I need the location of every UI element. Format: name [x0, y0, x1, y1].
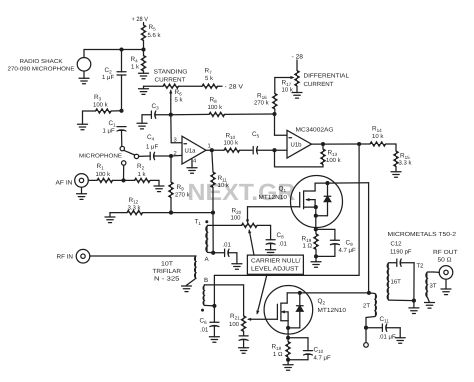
Q1 drain stub [304, 190, 316, 192]
resistor R18 [287, 338, 289, 342]
svg-text:MT12N10: MT12N10 [259, 194, 288, 201]
node R11 bus [211, 211, 215, 215]
svg-text:270 k: 270 k [254, 100, 270, 107]
wire bus drop to node A [212, 213, 214, 253]
svg-text:10T: 10T [161, 261, 173, 268]
wire [143, 23, 145, 26]
svg-text:1: 1 [208, 144, 211, 150]
resistor R2 [124, 179, 135, 181]
ground left of R12 [109, 213, 111, 217]
resistor R15 [395, 144, 397, 151]
ground under C8 [266, 249, 276, 251]
svg-text:1 μF: 1 μF [102, 74, 114, 81]
capacitor C9 [316, 228, 335, 230]
Q1 drain wire [328, 182, 369, 184]
switch AF contact [122, 161, 126, 165]
capacitor C2 [121, 50, 123, 72]
ground under microphone [83, 71, 85, 78]
svg-text:TRIFILAR: TRIFILAR [153, 268, 182, 275]
svg-text:3: 3 [174, 137, 177, 144]
resistor R14 [359, 143, 370, 145]
svg-text:100 k: 100 k [208, 104, 224, 111]
capacitor C1 [117, 126, 126, 128]
resistor R1 [88, 179, 97, 181]
svg-text:RADIO SHACK: RADIO SHACK [20, 59, 63, 65]
svg-text:100: 100 [231, 215, 242, 222]
node R19 bottom [314, 254, 318, 258]
potentiometer R20 [242, 223, 258, 227]
resistor R16 [274, 109, 276, 114]
svg-text:3.3 k: 3.3 k [128, 205, 142, 212]
svg-text:U1a: U1a [185, 148, 197, 155]
node U1a out [210, 148, 214, 152]
wire B bottom riser [213, 275, 215, 306]
resistor R12 [110, 212, 127, 214]
svg-text:.01: .01 [200, 327, 209, 334]
resistor R9 [170, 156, 172, 182]
Q2 gate bar [276, 304, 278, 319]
svg-text:1 Ω: 1 Ω [273, 351, 283, 358]
ground under AF IN [81, 187, 83, 194]
capacitor .01 at node A [213, 252, 224, 254]
ground pin4 U1a [191, 160, 193, 168]
resistor R8 [171, 113, 209, 115]
svg-text:100 k: 100 k [224, 140, 240, 147]
svg-text:CURRENT: CURRENT [304, 81, 334, 88]
svg-text:1 μF: 1 μF [103, 128, 115, 135]
wire U1a output [206, 149, 212, 151]
op-amp U1a [182, 136, 206, 164]
node A [211, 251, 215, 255]
ground after .01 cap [232, 263, 242, 265]
resistor R11 [212, 150, 213, 172]
node Q1 source [314, 227, 318, 231]
svg-text:10 k: 10 k [218, 182, 230, 189]
svg-text:2: 2 [174, 150, 177, 157]
svg-text:270-090 MICROPHONE: 270-090 MICROPHONE [8, 67, 75, 73]
resistor R13 [322, 144, 324, 149]
svg-text:.01: .01 [223, 242, 232, 249]
ground after R2 [158, 180, 160, 186]
wire winding A top to R20 [208, 224, 242, 226]
transformer T2 secondary 3T [426, 272, 428, 298]
ground under R18 [283, 364, 293, 366]
svg-text:MC34002AG: MC34002AG [296, 127, 334, 134]
svg-text:100: 100 [229, 321, 240, 328]
resistor R4 [143, 50, 145, 56]
node 2T top [367, 291, 371, 295]
svg-text:N - 325: N - 325 [154, 276, 180, 283]
node R9 bus [169, 211, 173, 215]
svg-text:- 28 V: - 28 V [225, 83, 244, 90]
terminal open circle [365, 328, 367, 343]
wire winding B top to R21 [204, 284, 243, 286]
svg-text:STANDING: STANDING [154, 69, 188, 76]
annotation box carrier null/level adjust [247, 255, 303, 274]
switch pole [134, 154, 138, 158]
Q1 source stub [304, 206, 316, 208]
node U1b out bus [357, 142, 361, 146]
potentiometer R21 [241, 316, 245, 332]
capacitor C11 [366, 327, 382, 329]
svg-text:MICROMETALS T50-2: MICROMETALS T50-2 [388, 231, 457, 238]
svg-text:3T: 3T [430, 283, 437, 290]
svg-text:100 k: 100 k [96, 171, 112, 178]
ground under C6 [209, 336, 219, 338]
svg-text:DIFFERENTIAL: DIFFERENTIAL [304, 73, 350, 80]
svg-text:T2: T2 [417, 263, 425, 270]
node C3/R8/pin3 [169, 113, 173, 117]
Q2 channel bar [280, 303, 282, 321]
potentiometer R17 [295, 71, 299, 87]
Q2 source wire [287, 328, 289, 338]
svg-text:100 k: 100 k [326, 157, 342, 164]
wire R20 wiper to Q1 gate [248, 206, 300, 208]
R21 wiper arrow [249, 318, 278, 320]
ground T1 primary [186, 284, 188, 287]
transistor Q1 [291, 176, 343, 228]
transformer T1 primary 10T [195, 256, 196, 278]
capacitor C6 [213, 306, 215, 322]
ground under R4 [139, 72, 149, 74]
Q2 drain wire [287, 292, 369, 294]
svg-text:MICROPHONE: MICROPHONE [79, 154, 122, 160]
wire Q1 drain drop [368, 183, 370, 292]
Q2 source stub [281, 320, 288, 322]
ground under R15 [391, 171, 401, 173]
resistor R7 [202, 84, 218, 88]
svg-text:1190 pF: 1190 pF [390, 249, 412, 256]
potentiometer R6 [163, 84, 179, 88]
svg-text:10 k: 10 k [372, 133, 384, 140]
feedback wire U1b [275, 166, 324, 168]
svg-text:5 k: 5 k [205, 75, 214, 82]
svg-text:CARRIER NULL/: CARRIER NULL/ [251, 258, 301, 265]
svg-text:B: B [204, 277, 208, 284]
resistor R10 [212, 149, 224, 151]
wire pin3 drop [170, 115, 172, 143]
svg-text:AF IN: AF IN [56, 180, 73, 187]
node AF junction [121, 178, 125, 182]
node B [212, 304, 216, 308]
svg-text:LEVEL ADJUST: LEVEL ADJUST [251, 266, 299, 273]
switch mic contact [120, 146, 124, 150]
Q2 drain stub [281, 302, 287, 304]
wire U1b output [312, 143, 324, 145]
svg-text:C12: C12 [391, 241, 403, 248]
Q2 body diode [299, 293, 301, 306]
node R18 bottom [286, 358, 290, 362]
capacitor C5 [252, 147, 254, 154]
Q1 channel bar [303, 191, 305, 209]
ground under R21 cap [239, 347, 249, 349]
svg-text:16T: 16T [391, 279, 402, 286]
Q1 body arrow [307, 199, 316, 201]
potentiometer R17 wiper [275, 77, 293, 79]
svg-text:3.3 k: 3.3 k [399, 160, 413, 167]
winding 2T [369, 292, 375, 295]
resistor R5 [141, 25, 145, 41]
Q1 gate bar [299, 193, 301, 208]
ground under R19 [311, 261, 321, 263]
wire R6 line [144, 85, 164, 87]
capacitor C4 [139, 155, 151, 157]
node T2 bottom [412, 299, 416, 303]
svg-text:U1b: U1b [291, 142, 303, 149]
ground under RF OUT [445, 279, 447, 289]
wire top node [84, 49, 144, 51]
Q1 source wire [315, 207, 317, 229]
ground T2 secondary [425, 302, 435, 304]
Q2 body arrow [282, 311, 288, 313]
svg-text:CURRENT: CURRENT [155, 77, 186, 84]
svg-text:5 k: 5 k [175, 97, 184, 104]
capacitor C8 [270, 225, 272, 239]
microphone radio shack [83, 50, 85, 58]
svg-text:100 k: 100 k [93, 102, 109, 109]
svg-text:MT12N10: MT12N10 [318, 307, 347, 314]
svg-text:1 k: 1 k [138, 171, 147, 178]
op-amp U1b [274, 114, 276, 135]
node U1b in [272, 148, 276, 152]
svg-text:4.7 μF: 4.7 μF [314, 355, 331, 362]
switch lever [124, 150, 135, 155]
node R8/R16 [272, 112, 276, 116]
svg-text:270 k: 270 k [175, 192, 191, 199]
svg-text:.01: .01 [279, 241, 288, 248]
Q1 body diode [327, 183, 329, 196]
ground left of R6 [143, 86, 145, 89]
svg-text:2T: 2T [363, 303, 370, 310]
svg-text:5.6 k: 5.6 k [148, 32, 162, 39]
svg-text:RF IN: RF IN [57, 254, 74, 261]
svg-text:1 μF: 1 μF [146, 144, 158, 151]
wire RF IN [90, 255, 196, 257]
annotation arrow to R20 [249, 231, 254, 256]
annotation arrow to R21 [257, 274, 267, 313]
wire U1b audio drop [358, 144, 360, 275]
wire R6 wiper down [170, 100, 172, 115]
ground under R17 [292, 92, 302, 94]
svg-text:.01 μF: .01 μF [379, 334, 396, 341]
resistor R19 [315, 229, 317, 233]
node pin2/R9 [169, 154, 173, 158]
svg-text:4.7 μF: 4.7 μF [339, 247, 356, 254]
svg-text:1 k: 1 k [131, 64, 140, 71]
ground after C11 [395, 337, 405, 339]
svg-text:- 28: - 28 [292, 54, 304, 61]
node 2T bottom [364, 326, 368, 330]
ground T2 primary [409, 307, 419, 309]
svg-text:RF OUT: RF OUT [433, 249, 458, 256]
svg-text:1 Ω: 1 Ω [303, 243, 313, 250]
wire to R14 [323, 143, 359, 145]
capacitor C10 [288, 337, 308, 339]
svg-text:50 Ω: 50 Ω [438, 257, 453, 264]
ground left of R3 [82, 111, 84, 124]
capacitor under R21 [239, 335, 248, 337]
svg-text:+ 28 V: + 28 V [132, 16, 149, 23]
transistor Q2 [264, 286, 313, 335]
resistor R3 [83, 110, 96, 112]
capacitor C3 [141, 115, 143, 124]
